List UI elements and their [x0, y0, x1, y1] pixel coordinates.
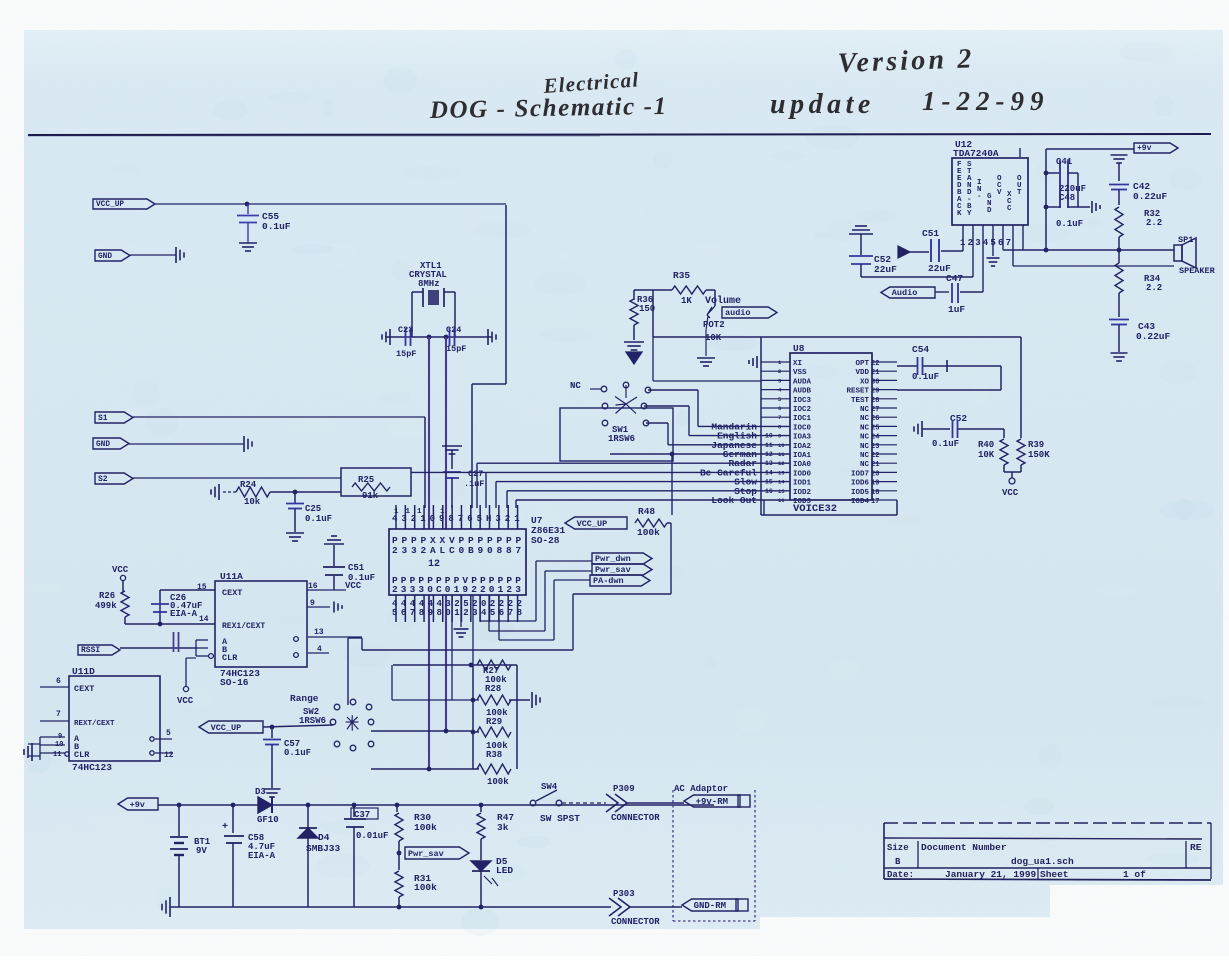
svg-text:16: 16 — [765, 488, 773, 495]
svg-text:IOD5: IOD5 — [851, 489, 870, 497]
svg-text:10: 10 — [778, 442, 785, 449]
svg-text:Sheet: Sheet — [1040, 869, 1069, 880]
svg-text:U11D: U11D — [72, 666, 95, 677]
svg-text:567898012345678: 567898012345678 — [392, 608, 526, 618]
svg-text:10k: 10k — [244, 497, 261, 507]
svg-text:VCC_UP: VCC_UP — [211, 723, 242, 733]
svg-text:NC: NC — [860, 443, 870, 451]
svg-text:Volume: Volume — [705, 295, 741, 307]
svg-text:Pwr_dwn: Pwr_dwn — [595, 554, 631, 564]
svg-text:RE: RE — [1190, 842, 1202, 853]
svg-text:100k: 100k — [637, 527, 660, 538]
svg-text:13: 13 — [314, 628, 324, 637]
svg-text:15: 15 — [778, 488, 785, 495]
svg-text:Range: Range — [290, 693, 319, 704]
svg-text:1234567: 1234567 — [960, 238, 1013, 248]
svg-text:150K: 150K — [1028, 450, 1050, 460]
svg-text:7: 7 — [778, 414, 781, 421]
svg-text:12: 12 — [164, 751, 174, 760]
svg-text:SW SPST: SW SPST — [540, 813, 580, 824]
svg-text:C48: C48 — [1059, 193, 1075, 203]
svg-text:SO-28: SO-28 — [531, 535, 560, 546]
svg-text:14: 14 — [199, 615, 209, 624]
svg-text:0.1uF: 0.1uF — [305, 514, 332, 524]
svg-text:111 1: 111 1 — [394, 508, 452, 516]
svg-text:CEXT: CEXT — [74, 684, 94, 694]
svg-text:6: 6 — [778, 405, 781, 412]
svg-text:26: 26 — [871, 415, 879, 423]
svg-text:C51: C51 — [348, 563, 365, 573]
svg-text:XI: XI — [793, 360, 802, 368]
svg-text:R28: R28 — [485, 684, 501, 694]
svg-text:1 of: 1 of — [1123, 869, 1146, 880]
svg-text:0.1uF: 0.1uF — [932, 439, 959, 449]
svg-text:C41: C41 — [1056, 157, 1073, 167]
svg-text:AUDB: AUDB — [793, 388, 812, 396]
svg-text:AC Adaptor: AC Adaptor — [674, 784, 728, 794]
svg-text:C27: C27 — [468, 469, 483, 479]
svg-text:Look Out: Look Out — [711, 495, 757, 506]
svg-text:January 21, 1999: January 21, 1999 — [945, 869, 1037, 880]
svg-text:R39: R39 — [1028, 440, 1044, 450]
svg-text:CEXT: CEXT — [222, 588, 242, 598]
svg-text:AUDA: AUDA — [793, 378, 812, 386]
svg-text:VCC_UP: VCC_UP — [577, 519, 608, 529]
svg-text:VDD: VDD — [855, 369, 869, 377]
svg-text:+9v-RM: +9v-RM — [696, 797, 728, 807]
svg-text:IOC0: IOC0 — [793, 424, 812, 432]
svg-text:IOD1: IOD1 — [793, 480, 812, 488]
svg-text:VCC: VCC — [1002, 488, 1019, 498]
svg-text:30: 30 — [871, 378, 879, 386]
svg-text:U11A: U11A — [220, 571, 243, 582]
svg-text:+9v: +9v — [1137, 144, 1152, 153]
svg-text:0.1uF: 0.1uF — [912, 372, 939, 382]
svg-text:S2: S2 — [98, 475, 108, 484]
svg-text:9: 9 — [778, 433, 781, 440]
svg-text:CLR: CLR — [74, 750, 90, 760]
svg-text:15pF: 15pF — [446, 344, 466, 354]
svg-text:XO: XO — [860, 378, 870, 386]
svg-text:IOA3: IOA3 — [793, 434, 812, 442]
svg-text:R24: R24 — [240, 480, 257, 490]
svg-text:15: 15 — [197, 583, 207, 592]
svg-text:11: 11 — [765, 442, 773, 449]
svg-text:C54: C54 — [912, 344, 929, 355]
svg-text:1-22-99: 1-22-99 — [922, 86, 1049, 116]
svg-text:0.22uF: 0.22uF — [1136, 331, 1171, 342]
svg-text:19: 19 — [871, 480, 879, 488]
svg-text:audio: audio — [725, 308, 751, 318]
svg-text:C23: C23 — [398, 325, 413, 335]
svg-text:0.1uF: 0.1uF — [284, 748, 311, 758]
svg-text:12: 12 — [765, 451, 773, 458]
svg-text:Document Number: Document Number — [921, 842, 1007, 853]
svg-text:IOD4: IOD4 — [851, 498, 870, 506]
svg-text:PA-dwn: PA-dwn — [593, 576, 624, 586]
svg-text:1K: 1K — [681, 296, 692, 306]
svg-text:SO-16: SO-16 — [220, 677, 249, 688]
svg-text:499k: 499k — [95, 601, 117, 611]
svg-text:IOD6: IOD6 — [851, 480, 870, 488]
svg-text:6: 6 — [56, 677, 61, 686]
svg-text:27: 27 — [871, 406, 879, 414]
svg-text:SPEAKER: SPEAKER — [1179, 266, 1216, 276]
svg-text:25: 25 — [871, 424, 879, 432]
svg-text:29: 29 — [871, 388, 879, 396]
svg-text:NC: NC — [570, 381, 581, 391]
svg-text:V: V — [997, 189, 1002, 197]
svg-text:15: 15 — [765, 479, 773, 486]
svg-text:2.2: 2.2 — [1146, 218, 1162, 228]
svg-text:update: update — [770, 89, 875, 120]
svg-text:-: - — [977, 193, 982, 201]
svg-text:IOC3: IOC3 — [793, 397, 812, 405]
svg-text:IOD2: IOD2 — [793, 489, 812, 497]
svg-text:Version 2: Version 2 — [837, 43, 975, 79]
svg-text:IOC1: IOC1 — [793, 415, 812, 423]
svg-text:S1: S1 — [98, 414, 108, 423]
svg-text:T: T — [1017, 189, 1022, 197]
svg-text:22uF: 22uF — [874, 264, 897, 275]
svg-text:3k: 3k — [497, 822, 509, 833]
svg-text:8MHz: 8MHz — [418, 279, 440, 289]
svg-text:150: 150 — [639, 304, 655, 314]
svg-text:20: 20 — [871, 470, 879, 478]
svg-text:R25: R25 — [358, 475, 374, 485]
svg-text:1RSW6: 1RSW6 — [608, 434, 635, 444]
svg-text:17: 17 — [871, 498, 879, 506]
svg-text:R29: R29 — [486, 717, 502, 727]
svg-text:0.22uF: 0.22uF — [1133, 191, 1168, 202]
svg-text:24: 24 — [871, 434, 879, 442]
svg-text:0.1uF: 0.1uF — [1056, 219, 1083, 229]
svg-text:CONNECTOR: CONNECTOR — [611, 917, 660, 927]
svg-text:5: 5 — [166, 729, 171, 738]
svg-text:IOD3: IOD3 — [793, 498, 812, 506]
svg-text:NC: NC — [860, 452, 870, 460]
svg-text:22: 22 — [871, 360, 879, 368]
svg-text:Audio: Audio — [892, 288, 918, 298]
svg-text:Size: Size — [887, 843, 909, 853]
svg-text:K: K — [957, 210, 962, 218]
svg-text:14: 14 — [778, 479, 785, 486]
svg-text:15pF: 15pF — [396, 349, 416, 359]
svg-text:NC: NC — [860, 461, 870, 469]
svg-text:LED: LED — [496, 865, 513, 876]
svg-text:1uF: 1uF — [948, 304, 965, 315]
svg-text:IOA1: IOA1 — [793, 452, 812, 460]
svg-text:C25: C25 — [305, 504, 321, 514]
svg-text:SW4: SW4 — [541, 782, 558, 792]
svg-text:12: 12 — [778, 460, 785, 467]
svg-text:CONNECTOR: CONNECTOR — [611, 813, 660, 823]
svg-text:EIA-A: EIA-A — [170, 609, 198, 619]
svg-text:11: 11 — [53, 751, 61, 759]
svg-text:RSSI: RSSI — [81, 646, 100, 655]
svg-text:16: 16 — [778, 497, 785, 504]
svg-text:0.1uF: 0.1uF — [262, 221, 291, 232]
svg-text:dog_ua1.sch: dog_ua1.sch — [1011, 856, 1074, 867]
svg-text:100k: 100k — [487, 777, 509, 787]
svg-text:R40: R40 — [978, 440, 994, 450]
svg-text:IOC2: IOC2 — [793, 406, 812, 414]
svg-text:R35: R35 — [673, 270, 690, 281]
svg-text:100k: 100k — [414, 822, 437, 833]
svg-text:2.2: 2.2 — [1146, 283, 1162, 293]
svg-text:2: 2 — [778, 368, 781, 375]
svg-text:23330C019220123: 23330C019220123 — [392, 584, 524, 595]
svg-text:GND: GND — [98, 253, 112, 261]
svg-text:R26: R26 — [99, 591, 115, 601]
svg-text:Pwr_sav: Pwr_sav — [595, 565, 631, 575]
svg-text:2332ALC0B90887: 2332ALC0B90887 — [392, 545, 525, 556]
svg-text:C24: C24 — [446, 325, 461, 335]
svg-text:REX1/CEXT: REX1/CEXT — [222, 622, 265, 631]
svg-text:21: 21 — [871, 461, 879, 469]
svg-text:91k: 91k — [362, 491, 379, 501]
svg-text:+: + — [222, 822, 228, 833]
svg-text:CLR: CLR — [222, 653, 238, 663]
svg-text:4: 4 — [317, 645, 322, 654]
svg-text:28: 28 — [871, 397, 879, 405]
svg-text:D4: D4 — [318, 832, 330, 843]
svg-text:VCC: VCC — [177, 696, 194, 706]
svg-text:10: 10 — [765, 433, 773, 440]
svg-text:Pwr_sav: Pwr_sav — [408, 849, 444, 859]
svg-text:12: 12 — [428, 559, 440, 570]
svg-text:D: D — [987, 207, 992, 215]
svg-text:100k: 100k — [414, 882, 437, 893]
svg-text:13: 13 — [778, 469, 785, 476]
svg-text:IOA0: IOA0 — [793, 461, 812, 469]
svg-text:NC: NC — [860, 415, 870, 423]
svg-text:D3: D3 — [255, 787, 266, 797]
svg-text:C: C — [1007, 205, 1012, 213]
svg-text:21: 21 — [871, 369, 879, 377]
svg-text:7: 7 — [56, 710, 61, 719]
svg-text:NC: NC — [860, 406, 870, 414]
svg-text:18: 18 — [871, 489, 879, 497]
svg-text:13: 13 — [765, 460, 773, 467]
svg-text:NC: NC — [860, 424, 870, 432]
svg-text:.1uF: .1uF — [464, 479, 484, 489]
svg-text:IOD7: IOD7 — [851, 470, 869, 478]
svg-text:B: B — [895, 857, 901, 867]
svg-text:VSS: VSS — [793, 369, 807, 377]
svg-text:OPT: OPT — [855, 360, 869, 368]
svg-text:GND: GND — [96, 441, 110, 449]
svg-text:74HC123: 74HC123 — [72, 762, 112, 773]
svg-text:R38: R38 — [486, 750, 502, 760]
svg-text:U8: U8 — [793, 343, 805, 354]
svg-text:R48: R48 — [638, 506, 655, 517]
svg-text:GND-RM: GND-RM — [694, 901, 726, 911]
svg-text:IOD0: IOD0 — [793, 470, 812, 478]
svg-text:REXT/CEXT: REXT/CEXT — [74, 720, 115, 728]
svg-text:C47: C47 — [946, 273, 963, 284]
svg-text:P303: P303 — [613, 889, 635, 899]
svg-text:+9v: +9v — [130, 800, 145, 810]
svg-text:0.01uF: 0.01uF — [356, 831, 388, 841]
svg-text:9V: 9V — [196, 846, 207, 856]
svg-text:VCC_UP: VCC_UP — [96, 201, 124, 209]
svg-text:11: 11 — [778, 451, 785, 458]
svg-text:VCC: VCC — [345, 581, 362, 591]
svg-text:DOG - Schematic -1: DOG - Schematic -1 — [429, 93, 668, 124]
svg-text:TEST: TEST — [851, 397, 870, 405]
svg-text:P309: P309 — [613, 784, 635, 794]
svg-text:SMBJ33: SMBJ33 — [306, 843, 341, 854]
svg-text:NC: NC — [860, 434, 870, 442]
svg-text:10K: 10K — [705, 333, 722, 343]
svg-text:22: 22 — [871, 452, 879, 460]
svg-text:Y: Y — [967, 210, 972, 218]
svg-text:RESET: RESET — [846, 388, 869, 396]
svg-text:GF10: GF10 — [257, 815, 279, 825]
svg-text:VCC: VCC — [112, 565, 129, 575]
svg-text:14: 14 — [765, 469, 773, 476]
svg-text:IOA2: IOA2 — [793, 443, 812, 451]
svg-text:C51: C51 — [922, 228, 939, 239]
svg-text:10K: 10K — [978, 450, 995, 460]
svg-text:1RSW6: 1RSW6 — [299, 716, 326, 726]
svg-text:23: 23 — [871, 443, 879, 451]
svg-text:EIA-A: EIA-A — [248, 851, 276, 861]
